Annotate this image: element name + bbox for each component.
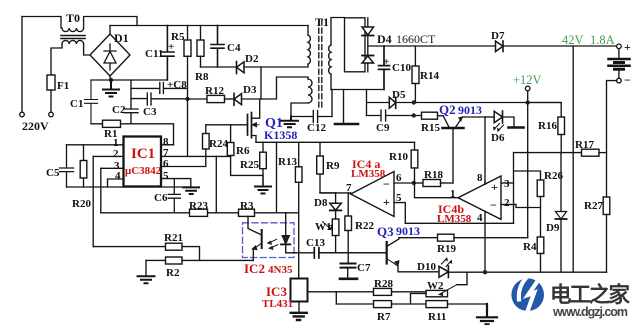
wire IC1 pin6 xyxy=(161,156,206,166)
svg-text:R15: R15 xyxy=(421,122,440,134)
svg-text:R16: R16 xyxy=(538,120,557,132)
logo dgzj xyxy=(511,278,630,320)
resistor R1 xyxy=(91,123,131,125)
svg-text:R23: R23 xyxy=(189,200,208,212)
wire gnd row under IC1 xyxy=(67,186,191,188)
svg-text:R20: R20 xyxy=(72,198,91,210)
ground R2 xyxy=(138,276,155,283)
wire IC1 pin1 xyxy=(67,144,124,146)
svg-text:9013: 9013 xyxy=(396,224,420,238)
wire T0 top right to rail xyxy=(84,17,137,29)
resistor R11 xyxy=(426,301,448,308)
ground bottom right xyxy=(477,304,497,324)
svg-text:R18: R18 xyxy=(424,169,443,181)
resistor R7 xyxy=(374,301,392,308)
ground R25 xyxy=(255,187,271,194)
wire drain column xyxy=(260,67,262,99)
wire D3 to aux top xyxy=(242,77,309,99)
svg-text:W2: W2 xyxy=(427,280,444,292)
battery B1 xyxy=(618,49,620,58)
pot W1 xyxy=(332,219,339,236)
svg-text:+: + xyxy=(624,40,631,54)
svg-text:R8: R8 xyxy=(195,71,209,83)
transformer T1 secondary winding xyxy=(329,45,331,74)
ground bar secondary xyxy=(335,123,358,126)
wire Q1 source xyxy=(252,136,257,143)
wire Q3 emitter xyxy=(398,266,439,272)
diode D4 top xyxy=(362,27,374,35)
svg-text:C3: C3 xyxy=(143,106,157,118)
logo circle xyxy=(511,278,544,311)
wire R2 row long xyxy=(182,259,253,261)
svg-text:C6: C6 xyxy=(154,192,168,204)
ground primary under D1 xyxy=(103,80,119,97)
svg-text:D9: D9 xyxy=(546,222,560,234)
diode D4 bottom xyxy=(362,55,374,57)
wire D4 output 42V rail xyxy=(368,45,496,47)
capacitor C10 xyxy=(379,46,390,90)
resistor R4 xyxy=(537,237,544,254)
capacitor C13 xyxy=(314,248,319,258)
resistor R17 xyxy=(582,149,600,156)
transistor Q2 xyxy=(443,116,449,127)
wire T0 bottom left to fuse xyxy=(51,44,62,75)
resistor R6 xyxy=(230,125,232,142)
diode D6 LED xyxy=(494,111,502,122)
svg-text:D2: D2 xyxy=(245,53,259,65)
svg-text:+12V: +12V xyxy=(513,73,542,87)
node D5 R14 xyxy=(412,100,416,104)
wire Q2 base down xyxy=(452,129,454,183)
wire IC4a pin5 xyxy=(394,203,405,224)
wire gate feed row y142 xyxy=(256,141,415,143)
ground bar D6 xyxy=(509,126,524,129)
svg-text:+: + xyxy=(383,56,389,68)
svg-text:4: 4 xyxy=(477,212,483,224)
svg-text:5: 5 xyxy=(163,170,169,182)
resistor R15 xyxy=(422,112,438,119)
capacitor C3 xyxy=(131,93,188,105)
svg-text:D5: D5 xyxy=(392,89,406,101)
svg-text:R13: R13 xyxy=(278,156,297,168)
wire T1 secondary bottom xyxy=(330,74,332,90)
capacitor C9 xyxy=(367,110,422,121)
resistor R14 xyxy=(414,46,416,66)
wire R26 top row xyxy=(514,171,541,180)
capacitor C6 xyxy=(168,179,180,213)
svg-text:R4: R4 xyxy=(523,241,537,253)
wire pin2 jog xyxy=(501,205,541,208)
IC1 box xyxy=(124,137,162,187)
wire IC4b pin8 top xyxy=(484,181,486,184)
wire IC4b pin2 xyxy=(501,204,516,206)
capacitor C1 xyxy=(85,80,98,124)
wire pin8 column xyxy=(484,117,486,184)
wire W2 left drop xyxy=(411,294,427,305)
svg-text:C11: C11 xyxy=(145,48,163,60)
opto IC2 dashed box xyxy=(243,223,295,258)
wire C12 to secondary return xyxy=(331,90,333,117)
svg-text:T0: T0 xyxy=(66,11,80,25)
wire T0 bottom right to bridge xyxy=(84,44,90,55)
svg-text:D8: D8 xyxy=(314,197,328,209)
svg-text:3: 3 xyxy=(504,178,510,190)
svg-text:T1: T1 xyxy=(315,15,329,29)
svg-text:R26: R26 xyxy=(544,170,563,182)
pot W2 wiper xyxy=(439,285,457,296)
svg-text:R5: R5 xyxy=(171,31,185,43)
capacitor C4 xyxy=(211,26,224,68)
svg-text:C2: C2 xyxy=(112,104,126,116)
svg-text:+: + xyxy=(383,195,390,209)
op-amp IC4b xyxy=(458,176,501,219)
svg-text:IC2: IC2 xyxy=(244,261,265,276)
resistor R16 xyxy=(528,103,562,118)
svg-text:R25: R25 xyxy=(240,159,259,171)
svg-text:D6: D6 xyxy=(491,132,505,144)
wire battery return rail xyxy=(448,271,606,273)
svg-text:LM358: LM358 xyxy=(351,168,386,180)
svg-text:R14: R14 xyxy=(420,70,439,82)
wire +12V column xyxy=(527,103,529,238)
wire D1 bottom to junction xyxy=(109,76,111,80)
transformer T0 core xyxy=(61,36,85,39)
resistor R24 xyxy=(205,125,207,134)
svg-text:+: + xyxy=(491,180,498,194)
transformer T1 primary winding xyxy=(308,35,310,64)
fuse F1 xyxy=(47,75,55,90)
wire CS column xyxy=(276,142,278,213)
svg-text:2: 2 xyxy=(504,197,510,209)
wire aux D2 bus y67 xyxy=(201,66,237,68)
opto IC2 phototransistor xyxy=(248,216,262,235)
resistor R3 xyxy=(239,209,255,216)
transformer T1 aux winding xyxy=(308,79,312,103)
svg-text:−: − xyxy=(490,198,497,212)
svg-text:R17: R17 xyxy=(575,139,594,151)
terminal battery plus xyxy=(617,44,622,49)
svg-text:D7: D7 xyxy=(491,30,505,42)
wire IC1 pin4 xyxy=(108,179,124,187)
wire +12V stub xyxy=(527,91,529,103)
node +12V xyxy=(526,100,530,104)
svg-text:μC3842: μC3842 xyxy=(125,165,162,177)
wire bottom row xyxy=(336,303,373,305)
svg-text:D1: D1 xyxy=(114,31,129,45)
resistor R5 xyxy=(187,26,189,41)
resistor R20 xyxy=(83,145,85,161)
svg-text:R19: R19 xyxy=(437,243,456,255)
wire IC4b pin4 xyxy=(484,211,486,272)
node VCC dot xyxy=(185,97,189,101)
wire battery minus down xyxy=(607,81,617,197)
wire C13 row xyxy=(294,252,314,254)
svg-text:8: 8 xyxy=(477,172,483,184)
resistor R12 xyxy=(207,95,225,102)
resistor R19 xyxy=(438,234,455,241)
resistor R2 xyxy=(146,259,166,261)
svg-text:Q3: Q3 xyxy=(377,224,394,239)
svg-text:LM358: LM358 xyxy=(437,213,472,225)
svg-text:R7: R7 xyxy=(377,311,391,323)
svg-text:4: 4 xyxy=(115,170,121,182)
diode D10 LED xyxy=(439,266,448,277)
bridge D1 inner diode xyxy=(104,44,116,70)
IC3 TL431 box xyxy=(291,279,308,302)
svg-text:IC3: IC3 xyxy=(266,284,287,299)
svg-text:R27: R27 xyxy=(584,200,603,212)
svg-text:C4: C4 xyxy=(227,42,241,54)
svg-text:R11: R11 xyxy=(428,311,446,323)
wire Q3 collector xyxy=(399,237,438,240)
diode D9 xyxy=(560,153,562,212)
transformer T0 bottom winding xyxy=(62,40,84,44)
resistor R10 xyxy=(414,142,416,150)
rectifier D4 package box xyxy=(345,18,366,72)
wire IC4b output xyxy=(415,183,459,198)
svg-text:IC1: IC1 xyxy=(131,146,155,162)
diode D8 xyxy=(330,203,342,210)
transformer T0 top winding xyxy=(62,28,84,32)
wire IC3 bottom xyxy=(298,302,300,313)
wire R12 D3 bus y99 xyxy=(188,98,208,100)
ground aux xyxy=(282,117,299,128)
svg-text:C9: C9 xyxy=(376,122,390,134)
svg-text:R28: R28 xyxy=(374,278,393,290)
transistor Q3 xyxy=(319,252,387,254)
rectifier D4 diode column xyxy=(367,18,369,27)
wire top rail main xyxy=(110,25,308,27)
bridge rectifier D1 diamond xyxy=(90,34,130,76)
wire IC1 pin3 xyxy=(101,167,124,169)
wire CS rail y212.8 xyxy=(101,212,299,214)
terminal 220V right circle xyxy=(49,112,54,117)
transformer T1 core dashed xyxy=(319,20,322,110)
resistor R27 xyxy=(603,197,610,215)
wire D1 top to rail xyxy=(109,26,111,35)
wire reference column xyxy=(513,153,515,224)
resistor R13 xyxy=(298,142,300,167)
wire IC4a pin6 xyxy=(394,182,414,184)
wire IC1 pin8 xyxy=(161,144,174,146)
svg-text:R21: R21 xyxy=(164,232,183,244)
D6 LED arrows xyxy=(494,124,500,130)
svg-text:R22: R22 xyxy=(355,220,374,232)
svg-text:TL431: TL431 xyxy=(262,298,293,310)
diode D3 xyxy=(233,93,235,105)
node main gnd junction xyxy=(109,78,113,82)
svg-text:R6: R6 xyxy=(236,145,250,157)
wire IC1 pin7 vcc row xyxy=(161,155,231,157)
svg-text:Q2: Q2 xyxy=(439,102,456,117)
svg-text:C13: C13 xyxy=(306,237,325,249)
wire 42V sense column xyxy=(572,46,574,272)
svg-text:C7: C7 xyxy=(357,262,371,274)
wire R21 row xyxy=(93,246,165,248)
svg-text:D3: D3 xyxy=(243,84,257,96)
svg-text:5: 5 xyxy=(396,192,402,204)
opto IC2 light arrows xyxy=(268,239,277,244)
wire R1 to pin8 xyxy=(131,124,174,145)
capacitor C8 xyxy=(131,83,188,94)
svg-text:C1: C1 xyxy=(70,98,83,110)
wire T1 primary top xyxy=(307,26,309,36)
diode D2 xyxy=(236,62,238,74)
svg-text:D4: D4 xyxy=(377,32,392,46)
svg-text:1660CT: 1660CT xyxy=(396,32,436,46)
svg-text:R2: R2 xyxy=(166,267,180,279)
wire IC1 pin2 xyxy=(93,155,123,157)
pot W2 xyxy=(426,290,448,296)
svg-text:−: − xyxy=(383,177,390,191)
svg-text:电工之家: 电工之家 xyxy=(550,282,630,307)
svg-text:6: 6 xyxy=(163,158,169,170)
wire T1 aux bottom xyxy=(291,103,308,117)
resistor R23 xyxy=(190,209,208,216)
svg-text:C10: C10 xyxy=(392,62,411,74)
ground pin5 xyxy=(183,187,199,194)
svg-text:R12: R12 xyxy=(205,85,224,97)
resistor R21 xyxy=(166,243,183,250)
ground bar C7 xyxy=(340,277,357,280)
wire AC left vertical xyxy=(21,17,23,113)
diode D5 xyxy=(389,97,395,108)
D10 arrows xyxy=(442,258,448,264)
wire Q2 emitter to D6 xyxy=(485,116,494,118)
svg-text:D10: D10 xyxy=(417,261,436,273)
wire secondary return y89.5 xyxy=(331,89,384,91)
terminal 220V left circle xyxy=(20,112,25,117)
wire pin7 row xyxy=(320,192,351,194)
wire R2 gnd xyxy=(145,260,147,276)
resistor R22 xyxy=(347,193,349,216)
node pin4 gnd xyxy=(483,270,487,274)
wire top rail to T0 xyxy=(22,17,61,29)
pot W1 wiper xyxy=(323,222,332,230)
svg-text:R3: R3 xyxy=(240,200,254,212)
resistor R28 xyxy=(374,288,392,295)
svg-text:42V: 42V xyxy=(562,33,584,47)
svg-text:W1: W1 xyxy=(315,221,332,233)
MOSFET Q1 xyxy=(206,124,248,126)
svg-text:1: 1 xyxy=(450,188,456,200)
wire gnd ref row xyxy=(405,222,513,224)
capacitor C5 xyxy=(60,145,74,187)
wire R28 row xyxy=(308,291,374,293)
resistor R26 xyxy=(537,180,544,197)
resistor R9 xyxy=(319,142,321,156)
wire IC3 right xyxy=(307,290,309,292)
svg-text:6: 6 xyxy=(396,172,402,184)
capacitor C12 xyxy=(291,111,332,123)
wire D5 branch xyxy=(367,102,390,104)
wire y80 bus xyxy=(91,79,167,81)
opto IC2 led xyxy=(285,213,287,236)
terminal battery minus xyxy=(617,78,622,83)
svg-text:R9: R9 xyxy=(326,160,340,172)
svg-text:R24: R24 xyxy=(209,138,228,150)
capacitor C11 xyxy=(161,26,174,81)
wire IC1 pin2 long xyxy=(92,156,94,246)
ground IC3 xyxy=(291,313,307,320)
capacitor C7 xyxy=(341,264,356,268)
svg-text:2: 2 xyxy=(113,148,119,160)
svg-text:+C8: +C8 xyxy=(167,79,187,91)
logo lightning glyph xyxy=(519,278,538,313)
diode D7 xyxy=(496,41,504,52)
svg-text:7: 7 xyxy=(346,182,352,194)
svg-text:K1358: K1358 xyxy=(264,128,297,142)
wire bottom row drop xyxy=(335,292,337,304)
terminal +12V circle xyxy=(525,86,530,91)
svg-text:R10: R10 xyxy=(389,151,408,163)
node fb xyxy=(412,181,416,185)
resistor R8 xyxy=(200,26,202,41)
svg-text:www.dgzj.com: www.dgzj.com xyxy=(552,305,628,319)
wire D5 C9 feed column xyxy=(366,90,368,116)
wire IC1 pin3 down xyxy=(100,168,102,213)
svg-text:C5: C5 xyxy=(46,167,60,179)
svg-text:−: − xyxy=(624,73,631,87)
svg-text:C12: C12 xyxy=(307,122,326,134)
wire W1 column xyxy=(335,236,337,253)
svg-text:9013: 9013 xyxy=(458,103,482,117)
svg-text:F1: F1 xyxy=(57,80,69,92)
wire source to R25 xyxy=(262,142,264,152)
wire T1 secondary top to box xyxy=(331,18,345,46)
wire reference node row xyxy=(514,152,582,154)
capacitor C2 xyxy=(124,80,138,124)
svg-text:4N35: 4N35 xyxy=(268,264,293,276)
wire to ground bar xyxy=(343,90,345,124)
op-amp IC4a xyxy=(351,172,394,217)
wire D2 to T1 primary bottom xyxy=(244,64,308,67)
node C9 R15 xyxy=(412,113,416,117)
svg-text:1.8A: 1.8A xyxy=(590,33,615,47)
svg-text:220V: 220V xyxy=(22,119,49,133)
wire vcc to cs tap xyxy=(215,156,217,212)
resistor R18 xyxy=(414,182,423,184)
wire IC1 pin5 xyxy=(161,179,191,188)
resistor R25 xyxy=(260,152,267,169)
wire IC4b pin3 xyxy=(501,182,514,184)
wire fuse to terminal xyxy=(50,90,52,112)
